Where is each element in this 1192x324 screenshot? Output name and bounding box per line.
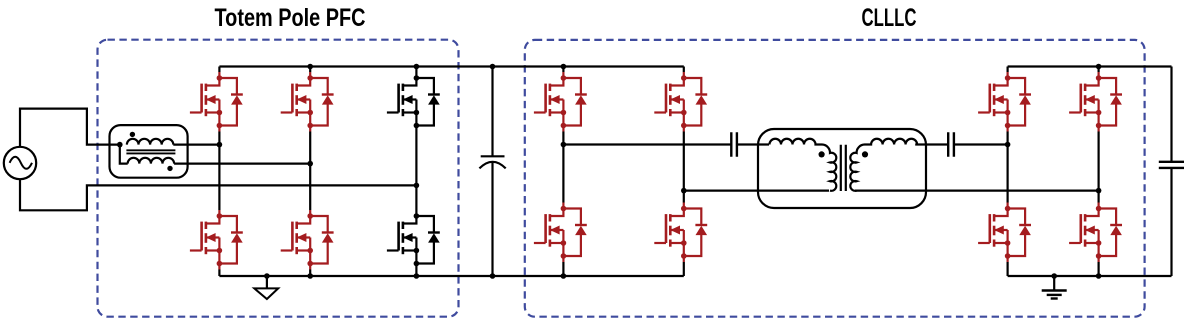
secondary bottom rail — [1008, 275, 1172, 277]
node: PFC ground tap — [264, 273, 270, 279]
wire: AC hot to inductor input — [20, 109, 120, 147]
dashed box: Totem Pole PFC stage — [98, 40, 459, 317]
node: inductor input junction — [117, 142, 123, 148]
transistor Q3 (MOSFET) — [281, 72, 334, 132]
ground (chassis) of PFC stage — [254, 276, 278, 299]
wire: transformer primary return to Q9 node — [684, 190, 829, 192]
transistor Q4 (MOSFET) — [281, 210, 334, 270]
wire: bottom winding to Q3/Q4 switch node — [174, 163, 310, 165]
coupled inductor L1 (PFC boost choke) — [110, 125, 188, 178]
node: primary bridge node 1 — [561, 142, 567, 148]
node: DC link bottom — [490, 273, 496, 279]
svg-text:CLLLC: CLLLC — [862, 4, 917, 32]
node: Q3 drain / top rail — [307, 64, 313, 70]
wire: transformer secondary return to Q13 node — [855, 190, 1099, 192]
svg-text:Totem Pole PFC: Totem Pole PFC — [215, 4, 366, 32]
ac source VAC — [4, 147, 36, 179]
transistor Q8 (MOSFET) — [534, 203, 587, 263]
wire: Q11/Q12 leg vertical — [1006, 67, 1008, 277]
transistor Q10 (MOSFET) — [654, 203, 707, 263]
capacitor C1 (DC link, polarized) — [479, 67, 505, 277]
wire: Q5/Q6 leg vertical — [415, 67, 417, 277]
transistor Q2 (MOSFET) — [190, 210, 243, 270]
node: Q5 drain / top rail — [414, 64, 420, 70]
ground (earth) of CLLLC secondary — [1042, 276, 1067, 299]
wire: Q7/Q8 leg vertical — [562, 67, 564, 277]
wire: top winding to Q1/Q2 switch node — [173, 144, 219, 146]
transistor Q12 (MOSFET) — [978, 203, 1031, 263]
secondary top rail — [1008, 65, 1172, 67]
transistor Q6 (MOSFET) — [387, 210, 440, 270]
node: Q14 source / secondary bottom rail — [1096, 273, 1102, 279]
dc bus bottom rail (primary side) — [219, 275, 683, 277]
node: Q7 drain / top rail — [561, 64, 567, 70]
capacitor C4 (output filter) — [1159, 67, 1184, 277]
node: secondary bridge node 2 — [1096, 188, 1102, 194]
transistor Q5 (MOSFET) — [387, 72, 440, 132]
wire: Q13/Q14 leg vertical — [1097, 67, 1099, 277]
node: DC link top — [490, 64, 496, 70]
transistor Q11 (MOSFET) — [978, 72, 1031, 132]
wire: Q3/Q4 leg vertical — [309, 67, 311, 277]
dc bus top rail (primary side) — [219, 65, 683, 67]
node: CLLLC ground tap — [1051, 273, 1057, 279]
transistor Q14 (MOSFET) — [1069, 203, 1122, 263]
node: phase B switch node — [307, 161, 313, 167]
wire: Q9/Q10 leg vertical — [683, 67, 685, 277]
transistor Q9 (MOSFET) — [654, 72, 707, 132]
capacitor C3 (secondary resonant) — [948, 132, 954, 157]
transistor Q13 (MOSFET) — [1069, 72, 1122, 132]
node: Q4 source / bottom rail — [307, 273, 313, 279]
transistor Q1 (MOSFET) — [190, 72, 243, 132]
node: Q8 source / bottom rail — [561, 273, 567, 279]
wire: Q1/Q2 leg vertical — [218, 67, 220, 277]
node: Q6 source / bottom rail — [414, 273, 420, 279]
wire: resonant cap to Q11 node — [954, 143, 1008, 145]
capacitor C2 (primary resonant) — [731, 132, 737, 157]
node: Q13 drain / secondary top rail — [1096, 64, 1102, 70]
node: line leg switch node — [414, 183, 420, 189]
dashed box: CLLLC stage — [525, 40, 1145, 317]
node: phase A switch node — [217, 142, 223, 148]
transistor Q7 (MOSFET) — [534, 72, 587, 132]
wire: tank line Q7 node to resonant cap — [563, 143, 731, 145]
node: secondary bridge node 1 — [1005, 142, 1011, 148]
node: primary bridge node 2 — [681, 188, 687, 194]
wire: transformer secondary to resonant cap — [915, 143, 948, 145]
transformer T1 (CLLLC, with magnetizing/leakage inductances) — [758, 129, 926, 208]
wire: resonant cap to transformer primary — [737, 143, 769, 145]
wire: AC neutral to Q5/Q6 switch node — [20, 179, 416, 210]
